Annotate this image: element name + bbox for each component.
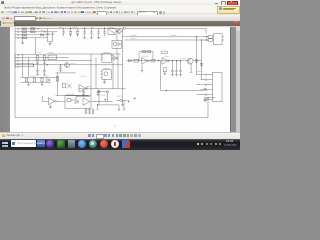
active tab: [1, 21, 14, 26]
ground GND8: [40, 82, 43, 85]
capacitor C4: [83, 28, 86, 36]
vertical x160: [159, 60, 161, 90]
node n2: [43, 30, 46, 33]
grey gutters: [0, 27, 240, 132]
resistor R6: [30, 31, 34, 33]
resistor R1: [22, 28, 26, 30]
capacitor C8: [36, 60, 39, 64]
wire x107 drop: [106, 93, 108, 102]
capacitor C20: [88, 108, 91, 114]
ground GND4: [90, 36, 93, 38]
node n5: [103, 26, 106, 29]
status centre nav icons: [88, 134, 91, 137]
node n10: [206, 96, 209, 99]
diode D5: [128, 59, 131, 62]
capacitor C24: [203, 87, 206, 90]
IC U4: [56, 95, 91, 107]
capacitor C11: [43, 64, 46, 74]
fuse F1: [122, 27, 125, 29]
wire cap join: [47, 38, 52, 41]
wire y57: [33, 56, 68, 58]
capacitor C18: [67, 98, 74, 101]
resistor R15: [133, 59, 137, 62]
wire y100 stub: [116, 99, 126, 101]
wire J2 top feed: [204, 28, 206, 33]
ground GND7: [27, 82, 30, 85]
capacitor C6: [97, 28, 100, 36]
transistor Q4: [186, 58, 192, 72]
label smudges: [30, 27, 202, 100]
white page: [10, 27, 230, 132]
diode D2: [46, 78, 49, 81]
diode D4: [75, 96, 90, 103]
resistor R3: [22, 34, 26, 36]
wire y97.5 right: [203, 97, 215, 100]
ground GND10: [203, 97, 205, 101]
tab close red: [234, 21, 239, 25]
start button: [2, 142, 4, 144]
diode D6: [195, 59, 197, 62]
node n12: [174, 59, 177, 62]
wire y95: [55, 94, 88, 96]
cross X2: [104, 98, 106, 100]
capacitor C14: [59, 64, 62, 71]
capacitor C27: [179, 60, 182, 76]
IC B4: [100, 53, 112, 61]
feedback loop U7: [138, 50, 152, 60]
wire row4: [19, 36, 47, 38]
bottom bus wire: [15, 116, 208, 118]
tab bar: [0, 21, 240, 26]
menu bar: [0, 5, 240, 10]
resistor R2: [22, 31, 26, 33]
node n3: [69, 26, 72, 29]
capacitor C5: [90, 28, 93, 36]
node n1: [36, 27, 39, 30]
connector J1: [15, 27, 19, 39]
mid bus wire: [15, 63, 122, 65]
toolbar row 2: [0, 15, 240, 21]
wire y60.4 right: [126, 59, 186, 61]
resistor R10: [33, 78, 35, 82]
cross X4: [133, 97, 135, 99]
capacitor C26: [175, 60, 178, 76]
node n18: [59, 63, 62, 66]
node n11: [170, 59, 173, 62]
wire pair lower: [124, 39, 207, 41]
node n8: [156, 59, 159, 62]
wire y91.5: [97, 90, 107, 92]
resistor R12: [56, 76, 58, 81]
page number under sheet: [114, 125, 115, 128]
cross X3: [127, 100, 129, 102]
node n13: [178, 59, 181, 62]
resistor R8: [43, 55, 45, 60]
wire row2: [19, 30, 57, 32]
opamp U4a: [83, 98, 90, 105]
toolbar row 1: [0, 10, 240, 16]
wire y53.5: [45, 53, 120, 55]
connector J4: [196, 72, 221, 101]
capacitor C19: [84, 108, 87, 114]
ground GND1: [48, 41, 51, 45]
ground GND9: [49, 104, 52, 108]
wire y77: [20, 76, 57, 78]
wire x35 drop: [34, 37, 36, 53]
capacitor C2: [51, 31, 53, 37]
connector J3: [15, 53, 19, 67]
wire x97 tail: [96, 105, 98, 110]
node circle n7: [106, 90, 108, 92]
zener VD2: [76, 28, 79, 37]
resistor R4: [22, 37, 26, 39]
node n15: [199, 38, 202, 41]
page right shadow: [230, 27, 231, 132]
wire to right top: [125, 27, 205, 29]
wire y90 right: [160, 89, 203, 91]
taskbar icons: [46, 140, 54, 148]
ground GND12: [117, 105, 119, 110]
node circle n19: [119, 99, 121, 101]
wire Q4 right: [192, 59, 200, 61]
capacitor C3: [62, 28, 65, 36]
wire row3: [19, 33, 50, 35]
top bus wire: [57, 27, 122, 29]
node circle n6: [97, 90, 99, 92]
transistor Q1: [116, 29, 121, 33]
clock: [226, 140, 233, 143]
wire y60: [33, 59, 91, 61]
diode D3: [114, 56, 117, 59]
vertical drop x28: [27, 57, 29, 77]
vertical x117.5: [117, 54, 119, 89]
wire y82: [20, 81, 50, 83]
IC B5: [100, 69, 111, 78]
connector rows wires: [19, 54, 45, 66]
ground GND3: [83, 36, 86, 38]
wire y72.5: [55, 72, 75, 74]
resistor R5: [30, 28, 34, 30]
resistor R13: [62, 83, 65, 87]
connector J2: [205, 33, 223, 44]
capacitor C16: [82, 88, 85, 95]
capacitor C7: [103, 28, 106, 36]
wire pair upper: [122, 35, 207, 37]
resistor R11: [40, 78, 42, 82]
vertical x90: [90, 54, 92, 95]
capacitor C25: [171, 60, 174, 76]
opamp U3: [42, 95, 56, 104]
opamp U7: [141, 57, 149, 64]
node n17: [46, 63, 49, 66]
node n14: [194, 35, 197, 38]
ground GND11: [140, 64, 143, 71]
search go button: [37, 140, 45, 147]
wire B2 feed: [116, 34, 118, 53]
opamp U6: [79, 84, 88, 92]
ground GND5: [97, 36, 100, 38]
capacitor C1: [46, 28, 48, 37]
right riser wire: [206, 101, 208, 118]
taskbar search box: [11, 140, 36, 147]
vertical x196: [195, 36, 197, 74]
node n16: [32, 63, 35, 66]
opamp U8: [161, 51, 169, 64]
diode D1: [40, 33, 43, 36]
scrollbar: [236, 27, 241, 132]
node n4: [83, 26, 86, 29]
vertical drop x22: [21, 53, 23, 76]
capacitor C17: [96, 88, 99, 95]
resistor R7: [36, 55, 38, 60]
wire row1: [19, 27, 57, 29]
resistor R17: [163, 67, 166, 74]
vertical x112.5: [112, 54, 114, 89]
tray icons: [197, 143, 199, 145]
resistor R9: [25, 78, 27, 82]
node n20: [96, 103, 99, 106]
ground GND13: [122, 100, 124, 109]
wire x98.5 drop: [98, 93, 100, 105]
IC U2: [108, 28, 116, 34]
app icon: [1, 1, 4, 4]
diode D7: [200, 63, 202, 66]
capacitor C15: [103, 79, 106, 84]
relay box B3: [48, 55, 56, 59]
ground GND6: [120, 104, 123, 106]
capacitor C9: [43, 60, 46, 64]
vertical x95: [95, 57, 97, 88]
wire y88.5: [78, 87, 125, 89]
resistor R16: [150, 59, 154, 62]
trimmer X1: [67, 83, 71, 88]
main vertical bus: [121, 28, 123, 104]
wire out U4: [91, 100, 112, 102]
wire Q1 to bus: [121, 30, 122, 32]
transistor Q2: [64, 62, 69, 67]
trial badge top right: [217, 6, 240, 14]
vertical x57: [56, 73, 58, 95]
ground GND2: [21, 37, 24, 44]
wire y104.6: [97, 104, 118, 106]
box B2: [112, 40, 121, 48]
node n9: [164, 89, 167, 92]
zener VD1: [69, 28, 72, 37]
title bar: [0, 0, 240, 5]
left frame wire: [14, 39, 16, 117]
window buttons: [215, 2, 218, 5]
vertical x200: [200, 40, 202, 80]
capacitor C10: [36, 64, 39, 74]
capacitor C28: [91, 108, 94, 114]
